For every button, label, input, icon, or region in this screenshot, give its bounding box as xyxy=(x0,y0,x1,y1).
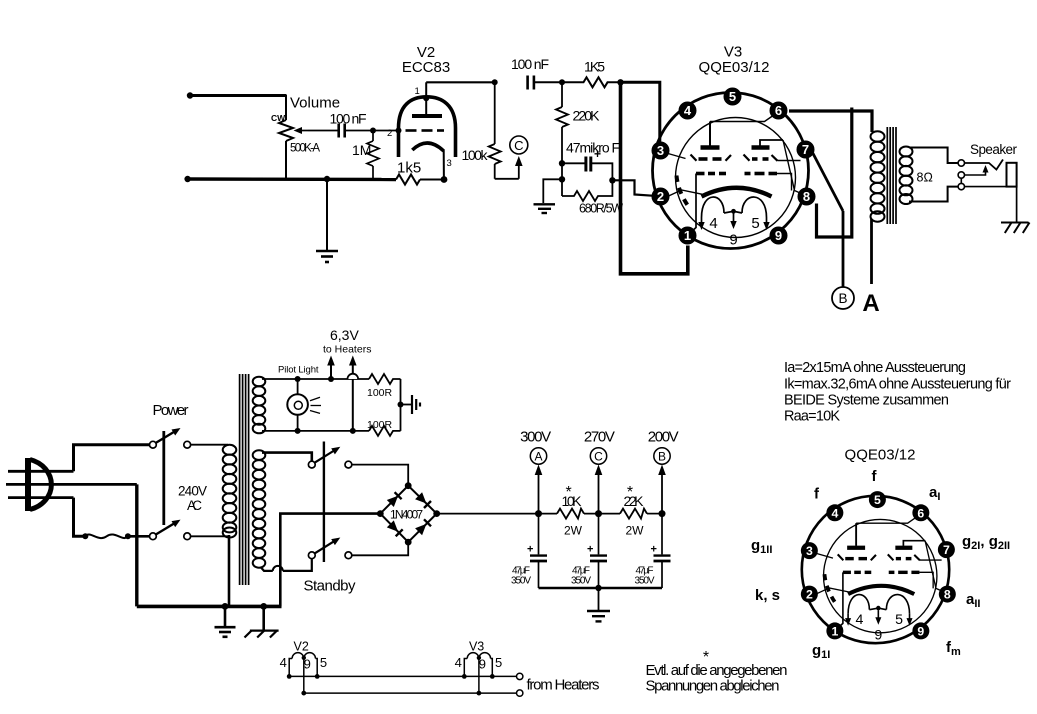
svg-text:2W: 2W xyxy=(564,524,583,538)
svg-text:100k: 100k xyxy=(462,147,489,163)
svg-text:240V: 240V xyxy=(178,484,207,499)
node bus ground xyxy=(595,585,601,591)
labels V2 pins 4 9 5 xyxy=(280,655,328,672)
svg-text:Ia=2x15mA ohne Aussteuerung: Ia=2x15mA ohne Aussteuerung xyxy=(784,360,966,376)
node earth ground xyxy=(222,603,229,610)
wire cap left down xyxy=(561,163,563,196)
label note text xyxy=(646,662,788,695)
wire neutral drop xyxy=(74,498,86,537)
svg-text:9: 9 xyxy=(479,657,486,672)
node ground branch xyxy=(559,176,565,182)
input terminal bottom xyxy=(184,176,190,182)
resistor 1k5 cathode xyxy=(396,175,420,185)
wire heater bus lower xyxy=(304,690,523,696)
svg-text:100R: 100R xyxy=(367,419,393,431)
svg-text:680R/5W: 680R/5W xyxy=(579,202,623,216)
diode D1 xyxy=(387,492,402,507)
label 6,3V to Heaters xyxy=(323,327,371,356)
svg-text:k, s: k, s xyxy=(755,587,780,604)
V3 heater bobbin xyxy=(464,653,492,677)
arrow node A xyxy=(535,465,543,514)
svg-text:8Ω: 8Ω xyxy=(917,171,933,185)
arrow node B xyxy=(658,465,666,514)
wire primary to rail xyxy=(228,535,231,606)
wire bridge plus to filter xyxy=(437,513,557,515)
svg-text:1K5: 1K5 xyxy=(584,59,605,75)
node B circle xyxy=(832,287,854,309)
ground chassis xyxy=(245,606,279,637)
V2 grid dashes xyxy=(406,129,445,132)
svg-text:100 nF: 100 nF xyxy=(330,111,367,127)
svg-text:C: C xyxy=(514,138,523,153)
svg-text:5: 5 xyxy=(495,655,502,670)
svg-text:QQE03/12: QQE03/12 xyxy=(699,59,770,76)
V2 anode lead xyxy=(425,82,427,116)
node anode junction xyxy=(492,79,498,85)
heater winding 6.3V xyxy=(253,377,266,434)
svg-text:10K: 10K xyxy=(562,493,583,509)
svg-text:2W: 2W xyxy=(626,524,645,538)
svg-text:A: A xyxy=(534,450,542,464)
wire pin6 to OPT xyxy=(789,111,872,132)
pot wiper arrow xyxy=(294,127,309,134)
mains transformer primary winding xyxy=(223,445,237,538)
terminal C circle xyxy=(590,448,606,464)
ground filter xyxy=(587,588,610,621)
label 47uF C xyxy=(571,566,591,587)
wire humdinger xyxy=(400,379,402,431)
wire A drop xyxy=(870,219,873,284)
resistor 220K xyxy=(556,82,568,163)
wire heater top xyxy=(262,378,369,380)
label 47uF B xyxy=(635,566,655,587)
capacitor 47uF cathode xyxy=(562,157,612,181)
wire cap to 1K5 node xyxy=(534,81,562,83)
svg-text:Volume: Volume xyxy=(290,95,340,112)
svg-text:270V: 270V xyxy=(584,429,615,446)
node B xyxy=(659,510,666,517)
diode D3 xyxy=(387,520,403,536)
terminal B circle xyxy=(654,448,670,464)
ground heater centre xyxy=(412,395,420,414)
tube pinout QQE03/12 xyxy=(801,491,956,643)
jack sleeve body xyxy=(1007,163,1017,187)
V2 heater bobbin xyxy=(289,653,317,677)
fuse xyxy=(82,533,149,539)
OPT secondary winding xyxy=(900,147,913,205)
input terminal top xyxy=(187,92,193,98)
node cap right xyxy=(609,177,615,183)
jack terminal tip xyxy=(958,160,964,166)
heater arrow 1 xyxy=(327,356,335,383)
svg-text:300V: 300V xyxy=(520,429,551,446)
wire standby2 to bridge bottom xyxy=(352,544,408,555)
node cathode junction xyxy=(441,176,448,183)
svg-text:500K-A: 500K-A xyxy=(290,143,320,155)
chassis ground speaker xyxy=(1001,223,1030,234)
ground earth xyxy=(215,606,236,636)
svg-text:ECC83: ECC83 xyxy=(402,59,450,76)
wire bridge minus to rail xyxy=(280,514,380,607)
wire pin8 stub xyxy=(817,108,852,238)
bridge rectifier 1N4007 xyxy=(377,482,440,545)
svg-text:Pilot Light: Pilot Light xyxy=(278,365,319,376)
wire pot to rail xyxy=(285,141,287,179)
wire HV bottom with hop xyxy=(261,559,312,571)
OPT core xyxy=(887,127,896,224)
wire cap to grid node xyxy=(345,130,399,132)
svg-text:350V: 350V xyxy=(511,576,531,587)
svg-text:100 nF: 100 nF xyxy=(511,56,549,72)
svg-text:from Heaters: from Heaters xyxy=(527,677,600,694)
svg-text:200V: 200V xyxy=(648,429,679,446)
resistor 1K5 grid stopper xyxy=(562,77,621,87)
wire to V3 pin 3 xyxy=(621,82,660,142)
svg-text:QQE03/12: QQE03/12 xyxy=(845,447,916,464)
plug prong bottom xyxy=(8,496,74,499)
svg-text:Speaker: Speaker xyxy=(970,142,1018,157)
wire wiper to cap xyxy=(308,130,338,132)
wire to V3 pin 2 xyxy=(612,180,654,196)
wire 1k5 to cathode node xyxy=(420,179,444,181)
svg-text:350V: 350V xyxy=(635,576,655,587)
capacitor 47uF B xyxy=(651,514,671,588)
jack terminal sleeve xyxy=(958,183,964,189)
wire standby1 to bridge top xyxy=(352,465,408,483)
svg-text:2: 2 xyxy=(387,128,392,139)
svg-text:1N4007: 1N4007 xyxy=(390,508,423,522)
svg-text:9: 9 xyxy=(304,657,311,672)
svg-text:6,3V: 6,3V xyxy=(330,327,359,343)
capacitor 47uF C xyxy=(587,514,607,588)
svg-text:100R: 100R xyxy=(367,387,393,399)
svg-text:350V: 350V xyxy=(571,576,591,587)
HV winding xyxy=(253,450,266,567)
svg-text:B: B xyxy=(838,291,847,306)
svg-text:BEIDE Systeme zusammen: BEIDE Systeme zusammen xyxy=(784,393,949,409)
svg-text:AC: AC xyxy=(187,498,202,513)
svg-text:1M: 1M xyxy=(352,142,371,158)
potentiometer 500K-A body xyxy=(279,120,293,141)
wire to ground xyxy=(326,179,328,250)
node pin1 on envelope xyxy=(423,95,429,101)
label 240V AC xyxy=(178,484,207,514)
svg-text:V3: V3 xyxy=(469,640,484,654)
switch Power pole 1 xyxy=(150,428,191,448)
wire 100k to C arrow xyxy=(495,178,519,180)
V2 cathode arc xyxy=(412,143,443,151)
svg-text:4: 4 xyxy=(455,655,462,670)
switch Standby link xyxy=(323,442,325,563)
wire earth drop xyxy=(135,484,138,606)
node bias junction xyxy=(617,79,623,85)
wire filter bus xyxy=(539,587,663,590)
wire secondary bottom to jack xyxy=(909,187,958,202)
svg-text:1: 1 xyxy=(415,86,420,97)
label 47uF A xyxy=(511,566,531,587)
ground input xyxy=(316,251,338,262)
svg-text:to Heaters: to Heaters xyxy=(323,344,371,356)
labels V3 pins 4 9 5 xyxy=(455,655,503,672)
wire 10K to node C xyxy=(584,513,620,515)
node grid on envelope xyxy=(396,128,402,134)
heater arrow 2 with hop xyxy=(348,356,359,434)
svg-text:4: 4 xyxy=(280,655,287,670)
resistor 1M xyxy=(367,131,379,180)
svg-text:Power: Power xyxy=(153,402,189,419)
wire pin7 to B diagonal xyxy=(813,153,844,212)
node cap left xyxy=(559,160,565,166)
resistor 680R/5W xyxy=(562,180,612,201)
wire bottom ground rail xyxy=(137,605,282,609)
svg-text:Raa=10K: Raa=10K xyxy=(784,409,840,425)
tube V2 envelope xyxy=(399,97,456,157)
label spec block xyxy=(784,360,1011,425)
svg-text:V3: V3 xyxy=(724,44,742,61)
wire to cathode ground xyxy=(543,179,562,203)
svg-text:5: 5 xyxy=(320,655,327,670)
svg-text:Evtl. auf die angegebenen: Evtl. auf die angegebenen xyxy=(646,662,788,679)
svg-text:3: 3 xyxy=(447,158,452,169)
arrow node C xyxy=(595,465,603,514)
node C circle xyxy=(510,136,528,154)
terminal A circle xyxy=(530,448,546,464)
wire to volume pot xyxy=(285,95,287,121)
svg-text:CW: CW xyxy=(271,113,286,123)
svg-text:220K: 220K xyxy=(573,108,601,124)
svg-text:V2: V2 xyxy=(294,640,309,654)
capacitor 100nF input xyxy=(339,124,345,138)
svg-text:22K: 22K xyxy=(624,493,645,509)
resistor 100R upper xyxy=(369,374,401,384)
svg-text:+: + xyxy=(651,544,657,556)
mains transformer core xyxy=(240,374,249,585)
svg-text:+: + xyxy=(587,544,593,556)
switch Power link xyxy=(162,431,165,525)
capacitor 47uF A xyxy=(527,514,547,588)
jack terminal switch xyxy=(958,172,964,178)
V3 heater centre tap xyxy=(477,656,482,696)
wire 22K to node B xyxy=(647,513,662,515)
diode D2 xyxy=(415,492,431,508)
wire B drop xyxy=(842,211,845,287)
svg-text:1k5: 1k5 xyxy=(397,160,421,177)
switch Power pole 2 xyxy=(150,520,191,540)
svg-text:Standby: Standby xyxy=(304,578,357,595)
wire HV top to standby xyxy=(262,453,312,461)
wire jack to chassis ground xyxy=(1016,187,1018,223)
wire switch-sleeve link xyxy=(960,178,962,183)
switch Standby pole 2 xyxy=(308,538,351,559)
V2 heater centre tap xyxy=(301,656,306,696)
wire tip contact xyxy=(965,160,1004,170)
wire secondary top to jack xyxy=(909,148,958,164)
wire switch to primary top xyxy=(191,444,228,446)
node A xyxy=(535,510,542,517)
arrow to node C xyxy=(515,156,523,179)
svg-text:B: B xyxy=(658,450,666,464)
svg-text:C: C xyxy=(594,450,603,464)
svg-text:Ik=max.32,6mA ohne Aussteuerun: Ik=max.32,6mA ohne Aussteuerung für xyxy=(784,377,1011,393)
pilot lamp xyxy=(287,376,308,434)
capacitor 100nF coupling xyxy=(528,76,534,90)
wire switch contact arrow xyxy=(965,165,989,175)
wire switch to primary bottom xyxy=(191,535,228,537)
switch Standby pole 1 xyxy=(308,447,351,468)
svg-text:Spannungen abgleichen: Spannungen abgleichen xyxy=(646,678,780,695)
plug prong middle xyxy=(6,483,137,486)
V2 anode plate xyxy=(412,114,442,118)
node grid junction xyxy=(370,128,376,134)
svg-text:+: + xyxy=(527,544,533,556)
plug prong top xyxy=(8,470,74,473)
wire sleeve contact xyxy=(965,186,1007,188)
wire bottom rail xyxy=(188,177,396,181)
node 220K top xyxy=(559,79,565,85)
wire to heater ground xyxy=(401,404,412,406)
node C xyxy=(595,510,602,517)
wire bias to V3 pin 1 xyxy=(621,84,688,274)
wire input top xyxy=(190,94,286,97)
tube V3 QQE03/12 xyxy=(652,88,816,249)
wire anode rail xyxy=(426,81,495,83)
AC plug body xyxy=(28,458,51,511)
svg-text:+: + xyxy=(594,147,601,161)
node ground stem xyxy=(324,176,330,182)
node humdinger centre xyxy=(398,402,404,408)
wire live riser xyxy=(74,445,150,472)
svg-text:47mikro F: 47mikro F xyxy=(566,140,620,156)
resistor 22K xyxy=(620,509,647,519)
V2 cathode lead xyxy=(443,150,445,180)
OPT primary winding xyxy=(871,131,885,221)
node chassis ground xyxy=(260,603,267,610)
diode D4 xyxy=(415,519,431,535)
resistor 100k xyxy=(489,82,501,179)
resistor 10K xyxy=(557,509,584,519)
pilot lamp rays xyxy=(310,397,321,413)
resistor 100R lower xyxy=(369,426,401,436)
ground cathode xyxy=(534,204,556,213)
wire heater bottom xyxy=(262,430,369,432)
wire heater bus upper xyxy=(287,673,523,679)
svg-text:A: A xyxy=(862,290,879,317)
